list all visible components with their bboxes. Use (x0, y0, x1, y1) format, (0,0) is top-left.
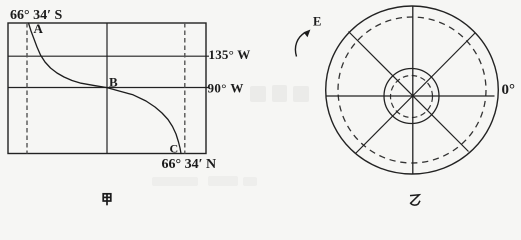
outer dashed circle (338, 17, 486, 163)
inner dashed circle (391, 76, 433, 118)
dashed meridian right (184, 23, 186, 154)
watermark smudge row (152, 176, 257, 186)
watermark blob (250, 85, 309, 102)
meridian line through B (106, 23, 108, 154)
svg-text:0°: 0° (502, 82, 516, 98)
horizontal diameter (326, 95, 495, 97)
diagonal NE-SW (356, 33, 476, 154)
svg-text:C: C (170, 141, 179, 155)
caption yi (乙) drawn glyph (410, 195, 420, 205)
dashed meridian left (26, 23, 28, 154)
svg-text:E: E (313, 15, 321, 29)
middle circle (384, 69, 439, 124)
diagonal NW-SE (349, 32, 469, 152)
outer circle (326, 6, 499, 174)
svg-text:90° W: 90° W (208, 81, 244, 96)
svg-text:135° W: 135° W (209, 47, 251, 62)
rotation arrowhead (304, 30, 311, 38)
terminator curve A-B-C (29, 23, 182, 154)
svg-text:B: B (109, 74, 118, 89)
svg-text:A: A (34, 21, 44, 36)
vertical diameter (412, 6, 414, 174)
caption jia (甲) drawn glyph (103, 194, 111, 206)
map frame (8, 23, 206, 154)
latitude line 90°W (8, 87, 209, 89)
rotation arrow (295, 33, 304, 57)
latitude line 135°W (8, 55, 209, 57)
svg-text:66° 34′ N: 66° 34′ N (162, 157, 217, 172)
